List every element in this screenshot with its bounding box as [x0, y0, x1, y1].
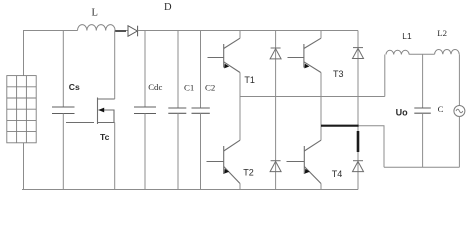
svg-text:C1: C1: [184, 83, 194, 93]
wire T3 emitter to T4 collector: [320, 73, 322, 141]
wire top bus left segment: [23, 30, 78, 32]
svg-text:T3: T3: [333, 69, 344, 79]
thick segment on diode leg 2: [357, 131, 360, 152]
svg-text:L1: L1: [402, 31, 412, 41]
wire filter cap lower leg: [422, 113, 424, 167]
wire bottom bus: [22, 189, 358, 191]
capacitor Cdc: [134, 107, 156, 114]
wire Cdc lower leg: [144, 114, 146, 190]
wire output upper riser: [384, 55, 386, 97]
arrow of Tc pointing to bar: [98, 108, 104, 113]
inductor L: [78, 25, 116, 31]
inductor L1: [386, 50, 409, 54]
svg-text:C: C: [438, 104, 444, 114]
arrow of T4 emitter: [305, 169, 310, 174]
wire PV bottom lead: [23, 143, 25, 190]
wire freewheel diode leg 2: [357, 31, 359, 190]
transistor Tc (switch): [66, 98, 115, 125]
svg-text:T1: T1: [244, 75, 255, 85]
diode D: [128, 26, 138, 37]
svg-text:T4: T4: [332, 169, 343, 179]
wire Cs upper leg: [62, 31, 64, 108]
inductor L2: [435, 49, 460, 54]
wire top bus right segment: [138, 30, 358, 32]
AC sine wave: [456, 109, 463, 113]
wire T2 emitter lead: [239, 184, 241, 190]
capacitor Cs: [52, 107, 75, 114]
transistor T3: [288, 38, 322, 72]
wire T3 collector lead: [320, 31, 322, 39]
wire Tc drain lead up: [114, 31, 116, 100]
wire C2 lower leg: [200, 113, 202, 189]
wire T4 emitter lead: [320, 184, 322, 190]
svg-text:L: L: [92, 8, 98, 19]
wire Cdc upper leg: [144, 31, 146, 108]
wire output lower thin: [359, 126, 384, 168]
transistor T2: [207, 140, 241, 183]
svg-text:Cdc: Cdc: [148, 82, 162, 92]
wire PV top lead: [23, 31, 25, 76]
svg-text:L2: L2: [437, 28, 447, 38]
wire output lower tap (thick): [321, 125, 359, 127]
diode D7 upper right: [353, 48, 364, 59]
wire C1 lower leg: [177, 113, 179, 189]
svg-text:Tc: Tc: [100, 132, 110, 142]
wire inverter midpoint bus: [240, 96, 385, 98]
wire T2 collector lead: [239, 97, 241, 141]
svg-text:Cs: Cs: [69, 82, 80, 92]
wire C1 upper leg: [177, 31, 179, 109]
wire filter bottom bus: [384, 166, 459, 168]
transistor T4: [287, 140, 322, 183]
wire Cs lower leg: [62, 114, 64, 190]
svg-text:T2: T2: [243, 167, 254, 177]
arrow of T2 emitter: [224, 169, 229, 174]
svg-text:Uo: Uo: [396, 107, 408, 117]
wire right rail lower: [458, 117, 460, 168]
capacitor C1: [168, 108, 186, 113]
wire L1 to L2: [409, 53, 435, 55]
diode D6 lower left: [270, 161, 281, 172]
svg-text:D: D: [164, 2, 172, 13]
AC source circle: [454, 106, 465, 117]
wire freewheel diode leg 1: [275, 31, 277, 190]
svg-text:C2: C2: [205, 83, 215, 93]
arrow of T1 emitter: [224, 64, 229, 69]
wire right rail upper: [458, 54, 460, 105]
arrow of T3 emitter: [304, 64, 309, 69]
diode D8 lower right: [353, 161, 364, 172]
diode D5 upper left: [270, 48, 281, 59]
wire Tc source lead down: [114, 123, 116, 190]
capacitor C2: [192, 108, 210, 113]
wire C2 upper leg: [200, 31, 202, 109]
PV array panel: [7, 76, 36, 143]
wire filter cap upper leg: [422, 54, 424, 108]
transistor T1: [208, 38, 241, 72]
wire T1 emitter to midpoint: [239, 73, 241, 97]
wire inductor to diode (dark): [115, 30, 126, 32]
wire T1 collector lead: [239, 31, 241, 39]
capacitor C: [414, 108, 431, 113]
